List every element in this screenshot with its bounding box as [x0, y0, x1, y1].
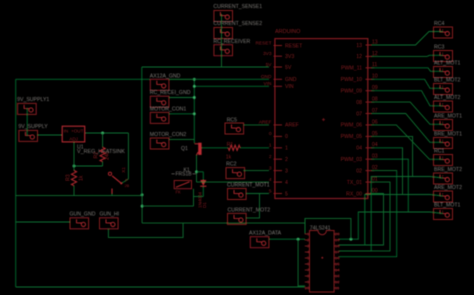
svg-text:R1: R1 — [227, 142, 234, 148]
wire net 03 to BLT_MOT1 — [372, 159, 409, 212]
wire OE loop — [305, 218, 351, 239]
svg-text:1: 1 — [269, 143, 272, 149]
relay K1 — [174, 181, 191, 195]
svg-text:RC2: RC2 — [226, 161, 236, 167]
arduino origin cross — [322, 118, 325, 121]
wire net 07 to BRE_MOT1 — [372, 114, 443, 143]
wire gnd bus vertical — [193, 79, 195, 143]
svg-text:RC4: RC4 — [434, 21, 444, 27]
svg-text:15: 15 — [335, 262, 340, 267]
svg-text:09: 09 — [372, 85, 378, 91]
junction bus gnd row — [193, 78, 196, 81]
junction ADJ net — [73, 165, 76, 168]
svg-text:01: 01 — [372, 177, 378, 183]
svg-text:3: 3 — [269, 165, 272, 171]
wire GND row left segment — [16, 78, 151, 80]
svg-text:16: 16 — [335, 256, 340, 261]
connector ALT_MOT1 — [434, 67, 453, 78]
wire buf out 17 — [339, 177, 443, 251]
connector 9V_SUPPLY1 — [18, 103, 37, 114]
wire net RX_00 to buffer — [339, 194, 384, 246]
connector RC4 — [434, 27, 453, 38]
wire gun gnd — [16, 221, 70, 223]
connector CURRENT_MOT1 — [228, 189, 247, 200]
wire net 06 to RC1 — [372, 125, 443, 159]
connector MOTOR_CON1 — [150, 112, 169, 123]
wire ax12a gnd — [169, 78, 194, 80]
ic right pins 20-11 — [334, 232, 340, 291]
wire net 13 to RC4 — [372, 32, 443, 46]
wire R2 bottom lead — [102, 162, 104, 166]
svg-text:2: 2 — [285, 157, 288, 163]
wire gun hi route — [108, 223, 183, 237]
wire R2 to ADJ net — [74, 165, 103, 167]
svg-text:BRE_MOT2: BRE_MOT2 — [434, 167, 462, 173]
resistor R1 — [228, 145, 240, 150]
svg-text:20: 20 — [335, 232, 340, 237]
svg-text:14: 14 — [335, 268, 340, 273]
wire D1 to relay net — [194, 196, 204, 198]
wire GND row — [169, 78, 269, 80]
svg-text:1k: 1k — [79, 175, 85, 181]
wire frame left vertical — [15, 79, 17, 287]
wire CURRENT_MOT1 to pin5 — [246, 193, 269, 195]
connector GUN_HI — [100, 218, 119, 229]
wire emitter to D1 top — [197, 171, 204, 173]
svg-text:18: 18 — [335, 244, 340, 249]
junction bus rc recei — [193, 96, 196, 99]
ic ARDUINO box — [275, 39, 368, 199]
wire R3 bottom lead — [73, 186, 75, 196]
svg-text:17: 17 — [335, 250, 340, 255]
svg-text:03: 03 — [372, 154, 378, 160]
svg-text:R3: R3 — [66, 174, 72, 181]
wire net 05 to BRE_MOT2 — [372, 136, 413, 176]
svg-text:1k: 1k — [226, 155, 232, 161]
wire gnd drop — [141, 195, 143, 223]
svg-text:R2: R2 — [94, 152, 100, 159]
svg-text:07: 07 — [372, 108, 378, 114]
connector 9V_SUPPLY — [19, 130, 38, 141]
svg-text:BLT_MOT1: BLT_MOT1 — [434, 203, 461, 209]
connector RC1 — [434, 155, 453, 166]
connector AX12A_GND — [150, 79, 169, 90]
svg-text:13: 13 — [335, 274, 340, 279]
wire vreg out down to trimmer — [127, 133, 129, 179]
wire buf out 19 — [339, 212, 443, 239]
wire gnd net bottom — [16, 195, 142, 197]
relay value dashes — [172, 173, 196, 175]
connector CURRENT_MOT2 — [228, 213, 247, 224]
svg-text:08: 08 — [356, 100, 362, 106]
svg-text:07: 07 — [356, 111, 362, 117]
svg-text:02: 02 — [356, 168, 362, 174]
svg-text:0: 0 — [285, 134, 288, 140]
wire 5V net vertical — [141, 67, 143, 195]
connector BRE_MOT2 — [434, 173, 453, 184]
wire rc recei gnd — [169, 97, 194, 99]
svg-text:PWM_10: PWM_10 — [341, 77, 362, 83]
svg-text:5: 5 — [269, 188, 272, 194]
svg-text:GND: GND — [285, 77, 297, 83]
svg-text:00: 00 — [372, 188, 378, 194]
svg-text:10: 10 — [372, 74, 378, 80]
arduino left pins — [256, 40, 304, 197]
svg-text:ADJ: ADJ — [69, 136, 78, 141]
wire R1 to pin1 — [240, 147, 269, 149]
svg-text:5: 5 — [285, 191, 288, 197]
svg-text:04: 04 — [372, 142, 378, 148]
svg-text:11: 11 — [372, 62, 377, 68]
svg-text:240: 240 — [105, 151, 111, 160]
svg-text:3: 3 — [285, 168, 288, 174]
svg-text:FK: FK — [176, 189, 182, 194]
connector BRE_MOT1 — [434, 138, 453, 149]
svg-text:08: 08 — [372, 97, 378, 103]
svg-text:RC1: RC1 — [434, 149, 444, 155]
svg-text:RESET: RESET — [285, 43, 303, 49]
svg-text:ARE_MOT2: ARE_MOT2 — [434, 185, 462, 191]
svg-text:RC_RECEI_GND: RC_RECEI_GND — [150, 90, 191, 96]
svg-text:02: 02 — [372, 165, 378, 171]
connector RC5 — [225, 123, 244, 134]
junction gnd A — [141, 193, 144, 196]
svg-text:3V3: 3V3 — [263, 51, 272, 57]
svg-text:ARDUINO: ARDUINO — [275, 29, 301, 35]
wire net TX_01 to buffer — [339, 182, 390, 251]
wire supply1 to supply — [26, 108, 28, 136]
regulator U1 V_REG_HEATSINK — [62, 126, 84, 142]
svg-text:2B: 2B — [125, 184, 130, 188]
wire net 04 to ARE_MOT2 — [372, 148, 403, 195]
svg-text:PWM_05: PWM_05 — [341, 134, 362, 140]
svg-text:Q1: Q1 — [181, 146, 188, 152]
svg-text:TX_01: TX_01 — [347, 180, 362, 186]
connector ALT_MOT2 — [434, 101, 453, 112]
svg-text:RC3: RC3 — [434, 45, 444, 51]
wire net 02 to buffer — [339, 171, 397, 257]
wire D1 bottom lead — [202, 186, 204, 196]
svg-text:PWM_11: PWM_11 — [341, 66, 362, 72]
connector MOTOR_CON2 — [150, 138, 169, 149]
trimmer X1 — [108, 167, 129, 194]
transistor Q1 — [195, 143, 202, 155]
svg-text:ALT_MOT2: ALT_MOT2 — [434, 95, 461, 101]
resistor R2 — [100, 147, 105, 161]
diode D1 1N4004 — [200, 180, 206, 186]
svg-text:3V3: 3V3 — [285, 54, 294, 60]
wire 5V row — [142, 66, 269, 68]
svg-text:CURRENT_MOT1: CURRENT_MOT1 — [227, 183, 270, 189]
wire OE loop drop — [304, 218, 306, 233]
wire relay pin down — [193, 189, 195, 206]
svg-text:12: 12 — [335, 280, 340, 285]
svg-text:AX12A_DATA: AX12A_DATA — [249, 231, 282, 237]
connector CURRENT_SENSE1 — [214, 11, 233, 22]
junction ax12a data — [297, 238, 300, 241]
svg-text:RESET: RESET — [256, 40, 272, 46]
svg-text:05: 05 — [372, 131, 378, 137]
wire top connector chain — [221, 14, 223, 67]
junction gnd B — [141, 205, 144, 208]
connector RC_RECEIVER — [214, 45, 233, 56]
connector ARE_MOT1 — [434, 120, 453, 131]
connector AX12A_DATA — [250, 237, 269, 248]
connector RC3 — [434, 51, 453, 62]
svg-text:PWM_03: PWM_03 — [341, 157, 362, 163]
svg-text:AX12A_GND: AX12A_GND — [150, 73, 181, 79]
wire VIN row — [194, 85, 269, 87]
svg-text:ARE_MOT1: ARE_MOT1 — [434, 114, 462, 120]
svg-text:D1: D1 — [202, 202, 207, 208]
svg-text:RC_RECEIVER: RC_RECEIVER — [213, 39, 250, 45]
svg-text:4: 4 — [285, 180, 288, 186]
svg-text:IN: IN — [64, 129, 69, 134]
wire buf out 18 — [339, 195, 443, 246]
wire pin10 gnd — [298, 285, 305, 287]
wire trimmer bottom — [111, 194, 113, 196]
svg-text:12: 12 — [372, 51, 378, 57]
svg-text:RX_00: RX_00 — [346, 191, 362, 197]
svg-text:CURRENT_SENSE1: CURRENT_SENSE1 — [213, 4, 262, 10]
resistor R3 — [71, 171, 76, 186]
wire RC5 to AREF — [244, 124, 269, 126]
wire vreg OUT — [85, 132, 128, 134]
connector ARE_MOT2 — [434, 191, 453, 202]
svg-text:CURRENT_SENSE2: CURRENT_SENSE2 — [213, 21, 262, 27]
junction bus VIN — [193, 85, 196, 88]
wire supply to vreg IN — [38, 134, 63, 136]
wire net 12 to RC3 — [372, 55, 443, 56]
svg-text:06: 06 — [372, 119, 378, 125]
svg-text:+OUT: +OUT — [71, 129, 84, 134]
wire ax12a data — [269, 238, 305, 240]
svg-text:X1: X1 — [121, 167, 127, 173]
wire net 11 to ALT_MOT1 — [372, 68, 443, 72]
connector RC_RECEI_GND — [150, 96, 169, 107]
svg-text:BRE_MOT1: BRE_MOT1 — [434, 132, 462, 138]
svg-text:11: 11 — [335, 286, 340, 291]
ic left pins 1-10 — [304, 232, 310, 291]
junction emitter relay — [195, 170, 198, 173]
svg-text:9V_SUPPLY1: 9V_SUPPLY1 — [17, 97, 49, 103]
svg-text:PWM_06: PWM_06 — [341, 123, 362, 129]
svg-text:GUN_HI: GUN_HI — [100, 211, 120, 217]
wire R2 top lead — [102, 133, 104, 147]
svg-text:13: 13 — [372, 39, 378, 45]
connector GUN_GND — [70, 218, 89, 229]
junction vreg out / R2 — [101, 132, 104, 135]
svg-text:19: 19 — [335, 238, 340, 243]
arduino right pins — [341, 39, 378, 197]
svg-text:04: 04 — [356, 146, 362, 152]
connector CURRENT_SENSE2 — [214, 28, 233, 39]
wire net to buffer OE — [142, 222, 305, 224]
svg-text:MOTOR_CON2: MOTOR_CON2 — [150, 132, 187, 138]
wire motor con1 — [169, 113, 194, 115]
svg-text:ALT_MOT1: ALT_MOT1 — [434, 61, 461, 67]
wire Q1 collector — [202, 147, 229, 149]
wire RC2 to pin3 — [243, 170, 269, 172]
wire net 09 to ALT_MOT2 — [372, 91, 443, 106]
wire Q1 emitter — [196, 155, 198, 182]
wire pin4 row — [197, 181, 270, 183]
svg-text:BLT_MOT2: BLT_MOT2 — [434, 78, 461, 84]
svg-text:10: 10 — [304, 286, 309, 291]
wire CURRENT_MOT2 route — [246, 194, 259, 218]
wire net 08 to ARE_MOT1 — [372, 102, 443, 124]
svg-text:12: 12 — [356, 54, 362, 60]
svg-text:CURRENT_MOT2: CURRENT_MOT2 — [228, 208, 271, 214]
svg-text:AREF: AREF — [285, 123, 299, 129]
svg-text:13: 13 — [356, 43, 362, 49]
wire motor con2 — [169, 138, 194, 140]
svg-text:1: 1 — [442, 28, 445, 33]
svg-text:PWM_09: PWM_09 — [341, 89, 362, 95]
wire gnd to relay — [142, 205, 193, 207]
wire frame bottom — [16, 286, 305, 288]
svg-text:2: 2 — [269, 154, 272, 160]
wire D1 top lead — [202, 172, 204, 180]
wire data to frame — [297, 239, 299, 287]
svg-text:MOTOR_CON1: MOTOR_CON1 — [150, 106, 187, 112]
junction pin19 loop — [349, 238, 352, 241]
wire ADJ down — [73, 142, 75, 171]
ic 74LS241 body — [310, 231, 335, 293]
svg-text:1: 1 — [285, 146, 288, 152]
connector BLT_MOT1 — [434, 209, 453, 220]
wire net 10 to BLT_MOT2 — [372, 79, 443, 88]
svg-text:9V_SUPPLY: 9V_SUPPLY — [18, 124, 48, 130]
connector RC2 — [226, 168, 245, 179]
svg-text:0: 0 — [269, 131, 272, 137]
connector BLT_MOT2 — [434, 84, 453, 95]
junction bus motor con1 — [193, 112, 196, 115]
svg-text:FRS1B: FRS1B — [176, 172, 193, 178]
svg-text:5V: 5V — [285, 65, 292, 71]
svg-text:RC5: RC5 — [227, 117, 237, 123]
svg-text:GUN_GND: GUN_GND — [70, 211, 96, 217]
svg-text:VIN: VIN — [285, 84, 294, 90]
